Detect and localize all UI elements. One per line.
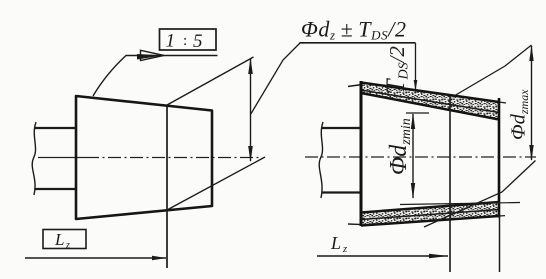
svg-text:1: 1 — [166, 31, 176, 52]
svg-text:L: L — [54, 230, 64, 249]
svg-text:z: z — [342, 244, 347, 255]
svg-text:5: 5 — [193, 31, 203, 52]
svg-text:L: L — [330, 233, 341, 253]
svg-text:Φdz ± TDS/2: Φdz ± TDS/2 — [301, 17, 407, 43]
svg-text:z: z — [65, 240, 70, 251]
svg-text::: : — [183, 33, 187, 49]
